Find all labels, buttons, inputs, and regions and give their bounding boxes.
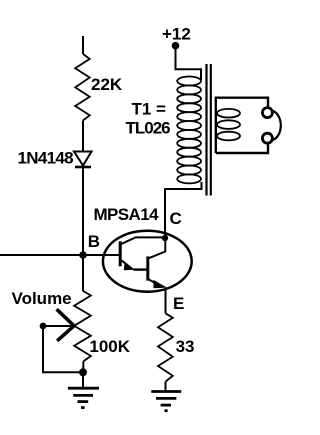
wire pot bottom (82, 361, 84, 372)
wire pot node to ground (82, 372, 84, 388)
wire diode to node B (82, 168, 84, 255)
resistor R 22K (75, 54, 90, 121)
svg-text:+12: +12 (162, 25, 191, 44)
node C junction dot (162, 235, 168, 241)
transistor Q2 base bar (146, 256, 149, 280)
transformer T1 secondary loop wiring (216, 98, 268, 153)
node pot bottom junction dot (79, 368, 87, 376)
transistor Q1 collector line (120, 237, 165, 244)
wire collector to transformer (165, 182, 202, 238)
svg-text:33: 33 (176, 337, 195, 356)
wire base (left input) (0, 254, 120, 256)
wire top stub above 22K (82, 36, 84, 54)
svg-text:E: E (173, 294, 184, 313)
wire wiper to bottom (43, 326, 83, 372)
transistor Q2 emitter line (148, 279, 155, 283)
svg-text:22K: 22K (91, 75, 123, 94)
potentiometer wiper arrow barbs (57, 309, 74, 341)
ground right (151, 392, 181, 411)
svg-text:C: C (170, 209, 182, 228)
svg-text:Volume: Volume (12, 289, 72, 308)
transistor Q2 emitter arrow (153, 280, 167, 288)
wire emitter to resistor 33 (165, 289, 167, 313)
transformer T1 core (207, 64, 211, 196)
diode D1 1N4148 (74, 152, 92, 168)
potentiometer wiper arrow shaft (43, 325, 73, 327)
wire +12 to transformer primary (176, 47, 202, 80)
wire secondary bottom (216, 143, 268, 153)
wire 33 to ground (165, 382, 167, 392)
earphone bottom circle (262, 133, 272, 143)
transistor Q2 collector line (148, 238, 166, 259)
node +12 terminal dot (172, 42, 180, 50)
transistor U1 MPSA14 ellipse (103, 231, 192, 292)
transistor Q1 base bar (119, 241, 122, 266)
svg-text:100K: 100K (89, 337, 130, 356)
transformer T1 primary coil (177, 77, 201, 184)
transformer T1 secondary coil (217, 109, 240, 140)
wire node B to potentiometer (82, 255, 84, 291)
resistor R 33 (158, 313, 173, 381)
node B junction dot (79, 251, 87, 259)
svg-text:1N4148: 1N4148 (18, 149, 74, 168)
transistor Q1 emitter arrow (124, 262, 135, 271)
svg-text:TL026: TL026 (126, 119, 171, 138)
potentiometer R 100K zigzag (74, 291, 91, 361)
node wiper dot (40, 323, 47, 330)
ground left (68, 388, 99, 407)
svg-text:MPSA14: MPSA14 (94, 205, 160, 224)
earphone top circle (262, 108, 272, 118)
svg-text:T1 =: T1 = (132, 100, 167, 119)
earphone arc (272, 111, 281, 141)
label T1 = TL026 (126, 100, 171, 138)
wire 22K to diode (82, 121, 84, 152)
svg-text:B: B (88, 232, 100, 251)
transistor Q1 emitter line (120, 259, 148, 269)
